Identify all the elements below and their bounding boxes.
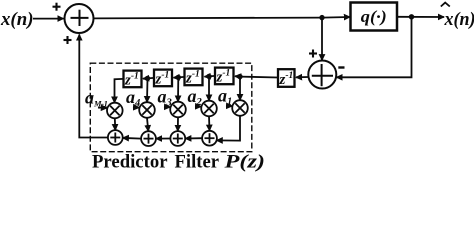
multiplier M4 a2	[201, 101, 217, 117]
wire M3 output down to adder A3	[177, 117, 179, 131]
tap junction T3	[176, 75, 181, 80]
wire T4 into delay D4	[143, 77, 148, 79]
minus sign at S2 right input	[338, 66, 344, 68]
tap junction T4	[145, 76, 150, 81]
coefficient arrow into M5	[226, 105, 232, 107]
svg-text:a2: a2	[188, 86, 203, 108]
wire quantizer output to xhat(n)	[397, 16, 444, 18]
wire D3 to tap junction T4	[148, 77, 155, 80]
coefficient arrow into M1	[98, 107, 107, 109]
delay element D2 z^-1	[185, 69, 203, 87]
wire tap T4 down to multiplier M2 a4	[146, 78, 149, 102]
multiplier M1 aM-1	[107, 103, 123, 119]
svg-text:a1: a1	[218, 86, 232, 108]
wire A2 output to adder A1	[123, 137, 141, 140]
summing junction S2	[308, 61, 336, 89]
wire M1 output down to adder A1	[114, 118, 117, 130]
delay element D4 z^-1	[124, 71, 142, 89]
node label xhat(n)	[441, 3, 474, 30]
plus sign at S1 bottom input	[64, 36, 72, 44]
coefficient arrow into M4	[195, 105, 201, 107]
wire M4 output down to adder A4	[208, 116, 211, 131]
caption Predictor Filter P(z)	[92, 152, 265, 173]
wire predictor output A1 left and up to S1 bottom input	[79, 35, 108, 138]
wire D1 to tap junction T2	[209, 75, 215, 78]
predictor filter dashed enclosure	[90, 63, 252, 152]
adder A2	[141, 131, 156, 146]
wire J1 down to summing junction S2	[321, 18, 323, 61]
node junction J1 branch to error adder S2	[319, 15, 324, 20]
wire tap T2 down to multiplier M4 a2	[208, 76, 210, 100]
wire tap T1 down to multiplier M5 a1	[239, 77, 241, 101]
adder A1	[108, 130, 123, 145]
quantizer U1 q(.)	[351, 3, 398, 31]
svg-text:x(n): x(n)	[444, 9, 474, 30]
delay element D3 z^-1	[154, 70, 172, 88]
adder A4	[202, 131, 217, 146]
wire input x(n) to summing junction S1	[33, 18, 64, 20]
svg-text:a4: a4	[126, 87, 140, 109]
multiplier M5 a1	[232, 100, 248, 116]
wire A4 output to adder A3	[185, 137, 202, 139]
node junction J2 on quantizer output	[409, 14, 414, 19]
adder A3	[170, 131, 185, 146]
multiplier M2 a4	[139, 102, 155, 118]
tap junction T1	[237, 74, 242, 79]
wire T3 into delay D3	[174, 76, 179, 78]
summing junction S1	[65, 4, 94, 33]
wire D4 output left and down to multiplier M1 aM-1	[115, 79, 124, 103]
delay element D1 z^-1	[215, 68, 234, 86]
svg-text:a3: a3	[158, 87, 172, 109]
svg-text:P(z): P(z)	[223, 152, 265, 173]
svg-text:q(·): q(·)	[361, 7, 387, 26]
wire A3 output to adder A2	[156, 138, 171, 140]
plus sign at S2 top input	[309, 50, 317, 58]
tap junction T2	[206, 74, 211, 79]
coefficient arrow into M3	[164, 106, 170, 108]
wire S1 output to quantizer	[94, 17, 351, 18]
svg-text:aM-1: aM-1	[85, 88, 108, 109]
plus sign at S1 input from x(n)	[53, 3, 61, 11]
svg-text:Filter: Filter	[175, 152, 220, 173]
coefficient arrow into M2	[133, 106, 139, 108]
wire tap T3 down to multiplier M3 a3	[177, 77, 179, 101]
multiplier M3 a3	[170, 102, 186, 118]
wire Z0 to tap junction T1	[240, 76, 278, 79]
wire S2 output to delay Z0	[296, 76, 308, 78]
svg-text:Predictor: Predictor	[92, 152, 168, 173]
wire J2 down and left to S2 minus input	[337, 17, 412, 78]
wire M2 output down to adder A2	[147, 118, 148, 131]
wire D2 to tap junction T3	[178, 76, 184, 79]
wire T1 into delay D1	[235, 75, 240, 77]
wire M5 output down and left to adder A4 right input	[217, 116, 240, 141]
svg-text:x(n): x(n)	[0, 9, 33, 30]
delay element Z0 z^-1	[278, 69, 295, 88]
wire T2 into delay D2	[205, 75, 210, 77]
